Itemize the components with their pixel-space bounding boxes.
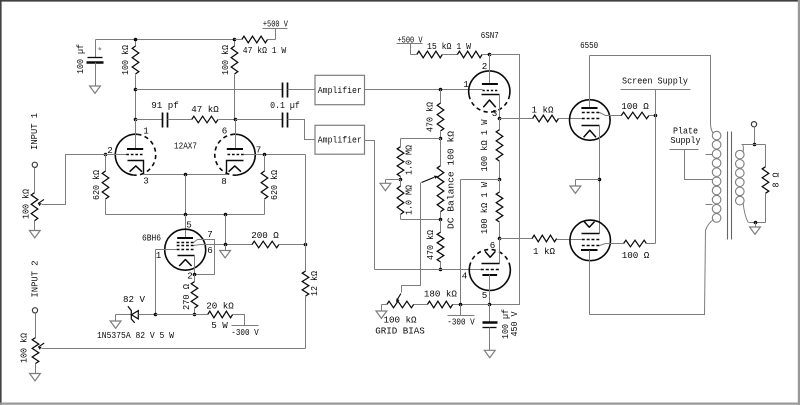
wire -300V node to pin5 node [453,304,490,306]
wire B+ to lower 6SN7 plate [490,55,520,305]
tube 6SN7 upper triode envelope [469,71,510,95]
svg-text:1 kΩ: 1 kΩ [533,246,556,257]
transformer primary winding [711,123,714,134]
wire grid return bus y=214 [106,214,265,216]
wire lower amplifier out to 6SN7 grid 4 [365,141,375,270]
svg-text:12AX7: 12AX7 [174,141,197,152]
wire DC balance wiper down to grid bias wiper [402,183,421,293]
resistor 100 Ohm upper screen [621,112,649,119]
svg-text:100 kΩ: 100 kΩ [220,45,231,75]
svg-text:6SN7: 6SN7 [481,30,499,41]
6550 lower control grid [582,239,600,241]
ground input 1 pot [29,231,40,238]
resistor 8 Ohm load [765,145,767,167]
svg-text:2: 2 [187,270,193,281]
resistor 620 kOhm right grid [264,155,266,172]
resistor 12 kOhm feedback [305,245,307,272]
6SN7 lower cathode pin 6 [499,239,501,264]
6SN7 upper grid pin 1 [483,90,498,92]
svg-text:-300 V: -300 V [231,327,259,338]
svg-text:100 Ω: 100 Ω [622,250,650,261]
node left plate / 91pf junction [134,118,138,122]
svg-text:91 pf: 91 pf [151,100,179,111]
6550 upper screen wire to 100 ohm [600,113,622,116]
resistor 1 kOhm lower grid stopper [500,238,533,240]
resistor 470 kOhm upper [440,90,442,104]
ground below 100uf cap [90,86,101,93]
6550 lower plate [581,249,598,251]
svg-text:INPUT 2: INPUT 2 [30,261,41,298]
resistor 100 kOhm 1 W lower [499,180,501,193]
svg-text:Amplifier: Amplifier [318,85,362,96]
svg-text:200 Ω: 200 Ω [251,230,279,241]
resistor 620 kOhm left grid [105,155,107,172]
power terminal -300 V (left) [233,315,245,326]
12AX7 right cathode pin 8 [227,161,244,175]
wire 6550 cathodes common [599,126,601,234]
svg-text:100 Ω: 100 Ω [621,101,649,112]
potentiometer 100 kOhm input 2 [35,313,37,338]
amplifier block upper [315,75,365,104]
ground 1M ladder midpoint [386,179,401,181]
zener diode 1N5375A 82V [116,314,132,316]
wire upper amplifier out to 6SN7 grid 1 [365,89,483,91]
resistor 470 kOhm lower [440,220,442,233]
svg-text:1 kΩ: 1 kΩ [531,105,554,116]
svg-text:8 Ω: 8 Ω [771,172,782,187]
6BH6 plate pin 5 [177,237,193,239]
tube 12AX7 left triode envelope [115,134,137,175]
svg-text:4: 4 [462,271,468,282]
amplifier block lower [315,125,365,154]
svg-text:100 kΩ: 100 kΩ [120,45,131,75]
svg-text:20 kΩ: 20 kΩ [206,301,234,312]
transformer primary tap upper (stub) [706,154,713,156]
svg-text:6: 6 [207,245,213,256]
6SN7 upper cathode pin 3 [482,94,500,96]
capacitor 0.1 uf to lower amplifier [282,113,284,128]
svg-text:5: 5 [482,290,488,301]
ground secondary [755,223,757,228]
6550 upper plate [589,56,591,109]
svg-text:6550: 6550 [580,40,598,51]
wire screen supply bus [655,90,657,244]
svg-text:Supply: Supply [671,135,701,146]
svg-text:620 kΩ: 620 kΩ [269,170,280,200]
wire lower 6550 plate to transformer [590,230,706,315]
svg-text:6BH6: 6BH6 [142,233,161,244]
svg-text:1: 1 [463,79,469,90]
page border frame [0,0,800,2]
resistor 15 kOhm 1 W (two sections) [411,54,417,56]
ground input 2 pot [30,374,41,381]
power terminal +500 V (left) [275,29,277,40]
ground branch from grid bus [225,215,227,245]
svg-text:180 kΩ: 180 kΩ [424,288,458,299]
svg-text:47 kΩ: 47 kΩ [191,104,219,115]
svg-text:0.1 µf: 0.1 µf [270,100,300,111]
transformer secondary winding [742,144,745,152]
ground zener anode [115,315,117,322]
ground 6550 cathodes [576,179,600,181]
capacitor 0.1 uf to upper amplifier [282,83,284,98]
resistor 100 kOhm left plate load [135,40,137,47]
12AX7 left grid pin 2 [66,154,127,156]
svg-text:100 kΩ 1 W: 100 kΩ 1 W [479,182,490,234]
svg-text:82 V: 82 V [123,294,146,305]
12AX7 right plate pin 6 [235,120,237,150]
svg-text:1.0 MΩ: 1.0 MΩ [404,185,415,215]
resistor 100 Ohm lower screen [624,240,647,247]
wire 12AX7 cathodes to 6BH6 plate [185,215,187,239]
svg-text:47 kΩ 1 W: 47 kΩ 1 W [243,45,287,56]
12AX7 right grid pin 7 [228,154,244,156]
svg-text:470 kΩ: 470 kΩ [425,230,436,260]
svg-text:5: 5 [186,220,192,231]
svg-text:470 kΩ: 470 kΩ [425,102,436,132]
svg-text:6: 6 [490,240,496,251]
svg-text:100 µf: 100 µf [75,44,86,74]
wire zener node to 20k [156,314,208,316]
resistor 1.0 MOhm upper [400,139,402,147]
tube 12AX7 right triode envelope [233,134,255,175]
6550 lower cathode [584,222,594,228]
resistor 20 kOhm 5 W [208,311,233,318]
svg-text:2: 2 [482,61,488,72]
svg-text:3: 3 [492,108,498,119]
svg-text:3: 3 [143,176,149,187]
svg-text:450 V: 450 V [509,311,520,336]
tube 6SN7 lower triode envelope [469,266,510,290]
6BH6 screen pin 7 loop to cathode [194,240,215,275]
transformer core [727,132,729,240]
capacitor 100 uf input filter [95,40,97,58]
node +500V rail top-left [96,39,235,41]
wire 470k junction to 1M ladder [401,138,441,140]
resistor 200 Ohm screen [252,241,279,248]
potentiometer 100 kOhm input 1 [34,168,36,193]
svg-text:GRID BIAS: GRID BIAS [375,325,425,336]
ground grid bias pot [381,305,383,312]
12AX7 left plate pin 1 [135,120,137,150]
wire cathode bus of 12AX7 [144,174,227,176]
6SN7 lower grid pin 4 [481,269,499,271]
capacitor 100 uf 450 V [489,305,491,323]
transformer primary tap lower (stub) [706,204,713,206]
6SN7 upper plate pin 2 [489,55,491,85]
wire plate supply to center tap [685,150,713,180]
svg-text:7: 7 [256,145,262,156]
svg-text:Screen Supply: Screen Supply [622,75,688,86]
resistor 1.0 MOhm lower [400,180,402,187]
wire right plate to lower 0.1uf cap [236,119,283,121]
svg-text:15 kΩ 1 W: 15 kΩ 1 W [427,41,471,52]
6SN7 lower plate pin 5 [482,274,497,276]
wire input1 wiper to grid pin 2 [38,199,44,203]
wire feedback node down right triode grid [305,155,307,245]
svg-text:100 kΩ: 100 kΩ [19,333,30,363]
6550 upper cathode [582,125,600,127]
6BH6 grid rows [177,242,194,244]
svg-text:1N5375A 82 V 5 W: 1N5375A 82 V 5 W [97,330,174,341]
svg-text:7: 7 [207,229,213,240]
svg-text:12 kΩ: 12 kΩ [309,271,320,296]
wire mid node to -300V node [461,179,500,181]
svg-text:1: 1 [143,126,149,137]
svg-text:Amplifier: Amplifier [318,135,362,146]
svg-text:INPUT 1: INPUT 1 [29,112,40,149]
svg-text:100 kΩ: 100 kΩ [21,189,32,219]
svg-text:1: 1 [156,250,162,261]
resistor 47 kOhm interstage [192,116,218,123]
tube 6550 upper envelope [570,100,611,141]
potentiometer DC Balance 100 kOhm [440,139,442,166]
resistor 47 kOhm 1 W B+ dropper [235,39,242,41]
resistor 100 kOhm 1 W upper [499,119,501,130]
wire left plate to feedback cap [134,88,138,92]
tube 6550 lower envelope [570,220,611,261]
resistor 1 kOhm upper grid stopper [500,118,533,120]
resistor 270 Ohm cathode of 6BH6 [194,275,196,282]
12AX7 left cathode pin 3 [128,161,144,175]
svg-text:8: 8 [221,176,227,187]
resistor 180 kOhm [427,301,452,308]
6BH6 grid pin 1 [156,249,177,251]
wire upper 6550 plate to transformer [590,56,711,124]
svg-text:100 kΩ 1 W: 100 kΩ 1 W [479,119,490,171]
power terminal -300 V (right) [460,305,462,316]
ground 100uf 450V cap [484,350,495,357]
resistor 100 kOhm right plate load [234,40,236,47]
svg-text:5 W: 5 W [211,320,228,331]
svg-text:*: * [97,47,102,57]
svg-text:1.0 MΩ: 1.0 MΩ [404,145,415,175]
wire input2 wiper to 12k feedback [38,343,44,347]
svg-text:-300 V: -300 V [447,316,475,327]
svg-text:270 Ω: 270 Ω [181,284,192,310]
DC balance wiper arrow [422,177,435,182]
capacitor 91 pf [162,113,164,128]
svg-text:6: 6 [222,126,228,137]
svg-text:620 kΩ: 620 kΩ [91,170,102,200]
wire 6BH6 grid pin1 to zener node [155,250,157,315]
6550 upper screen grid [582,112,600,114]
6BH6 pin 6 wire to 200 ohm [194,245,253,246]
potentiometer GRID BIAS 100 kOhm [387,301,414,308]
6550 lower screen grid [582,245,600,247]
6BH6 cathode pin 2 [178,255,195,257]
6550 upper control grid [582,118,600,120]
wire secondary bottom [749,222,766,224]
svg-text:100 kΩ: 100 kΩ [383,314,417,325]
6550 lower screen wire to 100 ohm [600,244,624,246]
svg-text:DC Balance 100 kΩ: DC Balance 100 kΩ [445,130,456,229]
output terminal [751,122,756,127]
wire secondary top [742,144,766,146]
tube 6BH6 envelope [165,229,206,270]
svg-text:+500 V: +500 V [263,19,288,30]
